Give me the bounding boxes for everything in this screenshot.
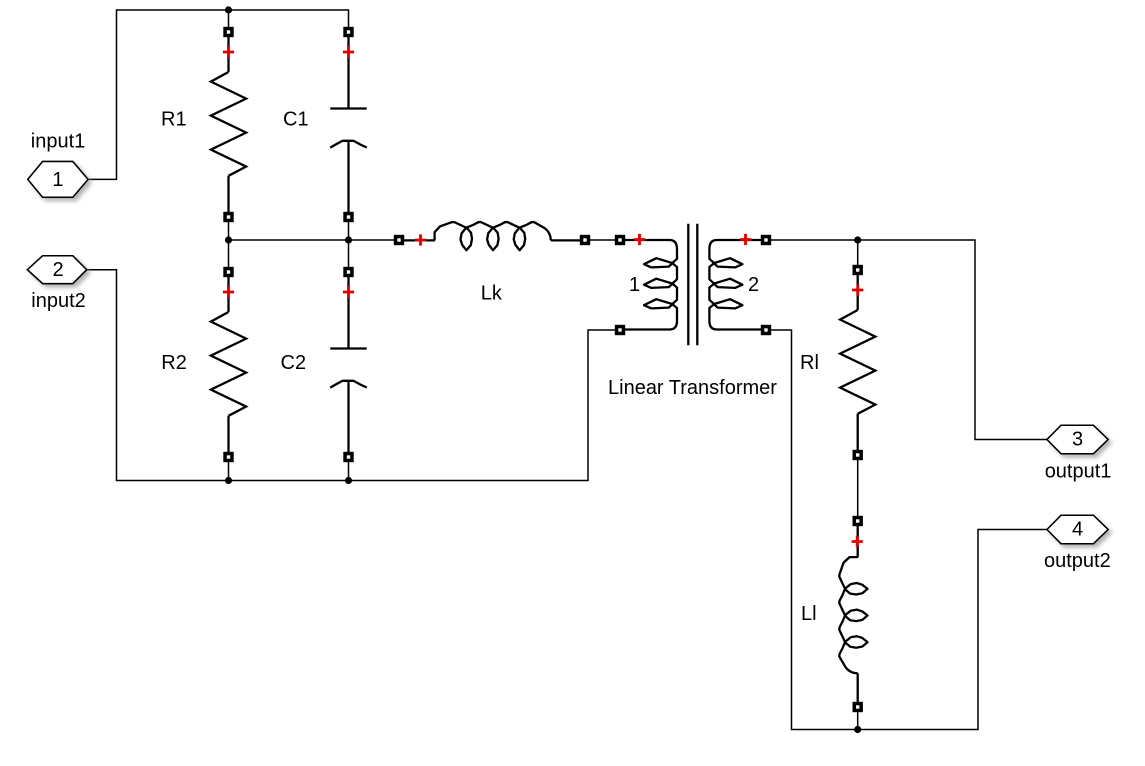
svg-text:4: 4 xyxy=(1072,519,1083,541)
resistor R1 xyxy=(211,27,246,222)
svg-text:2: 2 xyxy=(52,259,63,281)
winding 1 (primary) xyxy=(621,240,677,330)
wire stub C1 bottom to mid rail xyxy=(348,222,350,240)
winding 2 (secondary) xyxy=(709,240,765,330)
svg-text:input1: input1 xyxy=(31,131,86,153)
wire stub C2 top to mid rail xyxy=(348,240,350,267)
wire transformer 2- to bottom-right rail to output2 xyxy=(771,330,1047,730)
wire stub top rail to R1 xyxy=(228,10,230,27)
svg-text:output2: output2 xyxy=(1044,550,1111,572)
input port 2 xyxy=(27,256,86,284)
wire transformer 2+ to output1 xyxy=(771,240,1047,440)
svg-text:C2: C2 xyxy=(281,352,307,374)
svg-text:Linear Transformer: Linear Transformer xyxy=(608,377,777,399)
wire stub to Rl top xyxy=(857,240,859,265)
node mid rail junction R xyxy=(225,236,232,243)
node junction Rl top xyxy=(854,236,861,243)
wire Rl bottom to Ll top xyxy=(857,460,859,516)
svg-text:1: 1 xyxy=(629,274,640,296)
svg-text:output1: output1 xyxy=(1045,461,1112,483)
winding 1 leaves xyxy=(644,258,673,308)
core xyxy=(687,224,689,345)
node bottom rail junction C2 xyxy=(345,477,352,484)
wire input2 to bottom-left rail to transformer 1- xyxy=(87,270,615,481)
inductor Lk xyxy=(394,222,590,250)
svg-text:R1: R1 xyxy=(161,109,187,131)
inductor Ll xyxy=(839,516,867,712)
transformer U1 Linear Transformer xyxy=(615,224,771,345)
capacitor C1 xyxy=(330,27,367,222)
winding 2 leaves xyxy=(714,258,743,308)
input port 1 xyxy=(28,162,88,198)
node bottom rail junction R2 xyxy=(225,477,232,484)
svg-text:3: 3 xyxy=(1072,429,1083,451)
svg-text:C1: C1 xyxy=(283,109,309,131)
svg-text:1: 1 xyxy=(52,169,63,191)
wire stub C2 bottom to rail xyxy=(348,462,350,481)
svg-text:R2: R2 xyxy=(161,352,187,374)
svg-text:input2: input2 xyxy=(31,290,86,312)
wire mid rail R1/C1 to Lk xyxy=(229,222,395,240)
wire stub R2 top to mid rail xyxy=(228,240,230,267)
node top rail junction xyxy=(225,6,232,13)
output port 3 xyxy=(1047,425,1108,454)
svg-text:Ll: Ll xyxy=(801,603,817,625)
svg-text:2: 2 xyxy=(748,274,759,296)
output port 4 xyxy=(1047,515,1108,544)
resistor Rl xyxy=(840,265,875,460)
node mid rail junction C xyxy=(345,236,352,243)
node bottom-right rail junction xyxy=(854,726,861,733)
capacitor C2 xyxy=(330,267,367,462)
wire stub R2 bottom to rail xyxy=(228,462,230,481)
wire stub Ll bottom to rail xyxy=(857,712,859,730)
resistor R2 xyxy=(211,267,246,462)
wire input1 to top rail and C1 xyxy=(88,10,349,179)
svg-text:Lk: Lk xyxy=(481,283,503,305)
svg-text:Rl: Rl xyxy=(800,352,819,374)
wire Lk to transformer 1+ xyxy=(590,239,615,241)
